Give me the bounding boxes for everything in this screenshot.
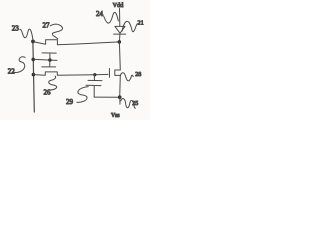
transistor 28 gate bar	[108, 69, 110, 78]
svg-text:21: 21	[138, 20, 144, 27]
svg-text:29: 29	[66, 98, 74, 106]
lead line for label 24	[104, 12, 119, 23]
svg-text:Vdd: Vdd	[113, 2, 125, 9]
wire: vertical drop through transistor 28 channel	[115, 42, 121, 97]
node: junction dot at Vss	[118, 95, 122, 99]
svg-text:24: 24	[96, 10, 104, 18]
transistor 27 gate bar and stub	[42, 53, 56, 60]
wire: bottom return wire to Vss node	[94, 96, 119, 98]
lead line for label 27	[50, 24, 62, 39]
svg-text:Vss: Vss	[111, 113, 120, 119]
wire: diode to top rail junction	[118, 34, 121, 42]
lead line for label 28	[120, 73, 133, 81]
diode 24 cathode bar	[114, 33, 126, 35]
lead line for label 23	[20, 29, 33, 40]
svg-text:27: 27	[43, 22, 51, 30]
capacitor 29 bottom plate with stub down	[86, 85, 101, 97]
wire: top rail through transistor 27 channel to Vdd node	[33, 40, 119, 45]
transistor 26 gate bar and stub	[42, 60, 56, 67]
svg-text:28: 28	[135, 72, 141, 78]
node: junction dot lower left bus	[32, 73, 36, 77]
wire: left vertical input bus (node 22/23)	[33, 41, 34, 112]
lead line for label 22	[13, 57, 26, 73]
wire: Vdd lead down to diode	[119, 9, 121, 27]
capacitor 29 top plate with stub	[88, 75, 102, 81]
wire: common gate node line (from left bus)	[33, 59, 57, 60]
node: junction dot at capacitor 29 tap	[93, 73, 96, 76]
lead line for label 26	[49, 76, 57, 90]
wire: lower wire through transistor 26 channel to node 29/28	[33, 72, 108, 75]
node: gate junction dot	[48, 58, 51, 61]
node: junction dot middle of left bus	[31, 58, 35, 62]
diode 24 triangle	[115, 26, 125, 33]
svg-text:25: 25	[132, 101, 138, 107]
lead line for label 21	[122, 21, 137, 31]
svg-text:23: 23	[12, 25, 20, 33]
wire: Vss terminal stub	[119, 97, 121, 104]
lead line for label 25	[121, 99, 136, 109]
lead line for label 29	[77, 87, 88, 103]
svg-text:22: 22	[8, 67, 16, 75]
node: junction dot Vdd rail	[118, 40, 122, 44]
node: junction dot top of left bus	[31, 40, 35, 44]
svg-text:26: 26	[44, 89, 52, 97]
